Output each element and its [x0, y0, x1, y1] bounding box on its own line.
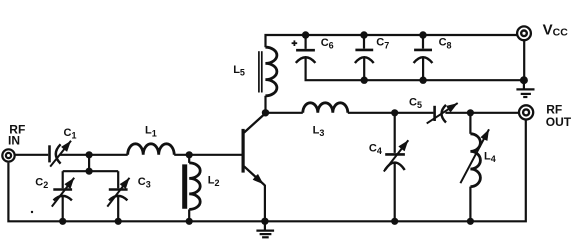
- svg-text:OUT: OUT: [546, 115, 572, 129]
- svg-text:IN: IN: [8, 133, 20, 147]
